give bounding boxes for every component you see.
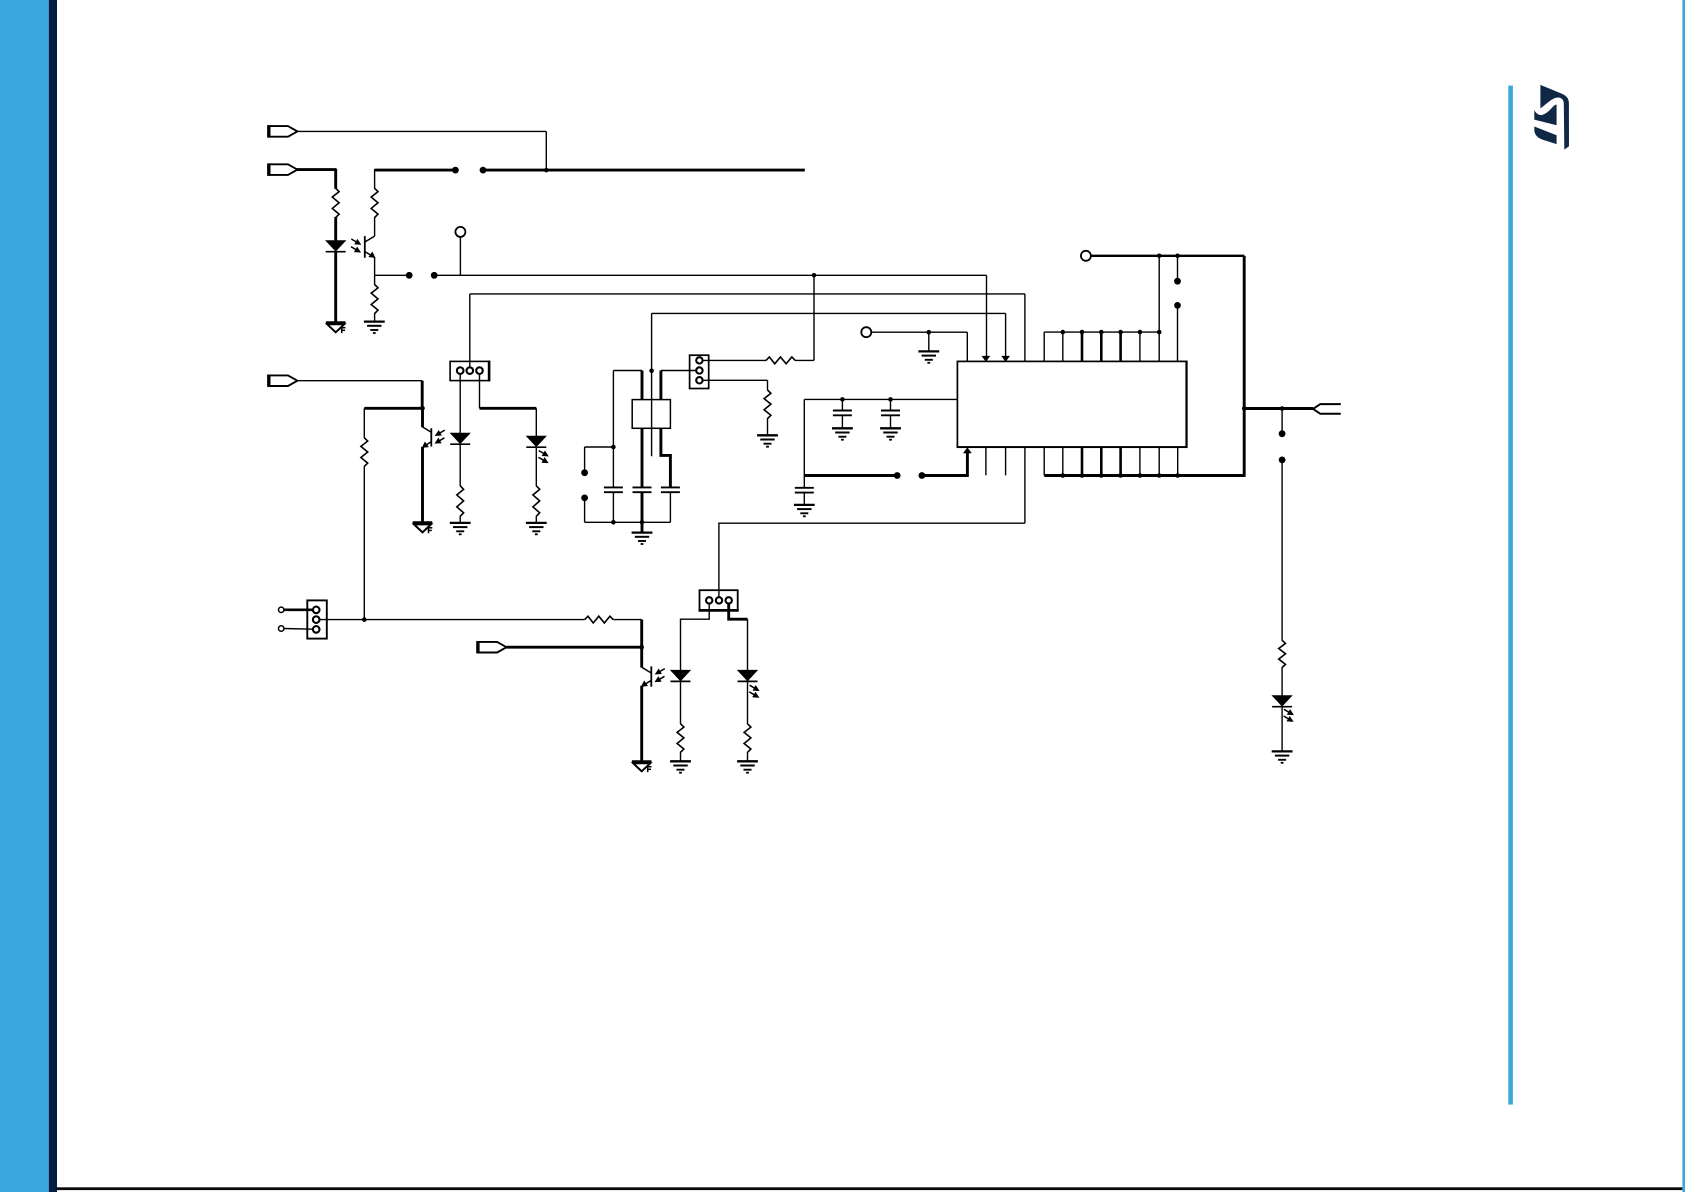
resistor R2 [371,188,378,217]
junction C2 tap [888,397,893,402]
wire crystal left lead [613,371,642,400]
capacitor C2 [881,411,900,416]
junction Q3 collector node [639,645,644,650]
solder-bridge J5 [1174,278,1181,309]
frame ground F3 [632,762,652,773]
wire LED branch to J6 [1281,409,1283,434]
resistor R8 [764,390,771,419]
capacitor C4 [604,487,623,492]
connector tag T1 [269,125,298,137]
wire CN1 pin3 to D3 [480,374,537,437]
junction VDD output node [1242,406,1247,411]
U1 top pin bus [1044,330,1161,362]
light emission arrows D5 [749,685,758,697]
thick bus VSS left [804,474,897,477]
wire left branch down [803,399,805,487]
capacitor C1 [833,411,852,416]
wire to tag T5 [1244,407,1313,410]
ground G6 [794,505,815,516]
junction bus C4 [611,520,616,525]
wire J3 to gnd bus [584,498,586,522]
U1 VSS pin to ground line [1024,447,1026,523]
vertical blue accent line [1508,86,1513,1105]
junction bus C5 [640,520,645,525]
wire C6 to bus [669,493,671,523]
junction T1/line2 [544,168,549,173]
capacitor C5 [633,487,652,492]
pin header CN4 [699,590,739,610]
ground G5 [880,428,901,439]
junction on crystal line [649,369,654,374]
ground G4 [832,428,853,439]
left light-blue sidebar [0,0,49,1192]
stub pin A [279,607,313,612]
stub pin B [279,626,313,631]
wire R4 down to CN3 [363,466,365,620]
ST logo [1534,85,1569,150]
junction R4 branch [362,617,367,622]
connector tag T2 [269,163,298,175]
junction C1 tap [840,397,845,402]
LED D2 (optocoupler diode) [450,433,470,444]
connector tag T4 [478,641,507,653]
phototransistor Q3 [642,647,652,687]
wire T1 to line2 [297,131,546,170]
junction VDD b [1175,254,1180,259]
light emission arrows D3 [539,451,548,463]
LED D1 (optocoupler diode) [326,241,346,252]
capacitor C3 [795,488,814,493]
wire VDD right drop [1243,256,1246,477]
wire R5 to ground [459,516,461,523]
U1 bottom pin bus [1044,447,1244,478]
wire net OPTO1 into U1 [986,275,988,357]
wire Q3 emitter to F3 [640,686,643,762]
wire U1 left pin net [804,398,957,400]
wire CN4 pin3 to D5 [729,604,748,671]
wire J6 to R12 [1281,460,1283,641]
wire C2 stem [890,399,892,410]
test point P3 [1081,251,1244,261]
wire C5 to bus [641,493,644,523]
wire node to R4 corner [364,407,423,410]
solder-bridge J6 [1279,430,1286,463]
ground G9 [526,523,547,534]
phototransistor Q2 [423,408,432,447]
frame ground F2 [413,523,433,534]
wire Q1 emitter down [374,257,376,285]
junction LED branch [1280,406,1285,411]
junction Q2 collector node [420,406,425,411]
resistor R5 [457,486,464,517]
ground G10 [670,761,691,772]
ground G3 [918,351,939,362]
ground G7 [632,522,653,544]
wire CN4 pin1 to D4 [681,604,710,671]
wire Y1 right jog to C6 [661,428,671,487]
wire VDD to J5 [1177,256,1179,281]
wire R1 to D1 [334,217,337,241]
test point P2 [861,327,967,337]
resistor R3 [371,285,378,314]
wire link to J3 [585,447,614,473]
wire T3 to Q2 collector [297,381,422,409]
wire crystal right lead [661,371,696,400]
wire VDD to top bus [1158,256,1160,332]
wire CN3 pin2 to R9 [320,619,585,621]
wire R12 to D6 [1281,667,1283,696]
resistor R12 [1279,640,1286,667]
bottom black rule [57,1187,1683,1190]
solder-bridge J1 [406,272,438,279]
light arrows D2 to Q2 [435,430,444,443]
LED D5 [738,670,758,681]
arrow into U1 bottom [964,448,971,453]
wire R6 to ground [535,516,537,523]
LED D4 (optocoupler diode) [671,670,691,681]
wire line2 long [483,169,805,172]
wire CN2 pin3 to R8 [703,380,768,390]
wire segment line2-left [375,169,456,189]
IC U1 [957,361,1186,447]
pin header CN2 [690,355,709,388]
wire C3 to ground [803,493,805,505]
resistor R1 [332,188,339,217]
resistor R11 [744,724,751,753]
wire R7 to net OPTO1 [795,275,814,360]
solder-bridge J2 [452,167,486,174]
wire to ground G3 [928,332,930,351]
test point P1 [455,227,465,275]
resistor R7 [766,357,795,364]
wire D6 to ground [1281,707,1283,751]
connector tag T3 [269,375,298,387]
wire C1 stem [841,399,843,410]
wire R3 to ground [374,313,376,322]
arrow into U1 pin3 [1002,356,1009,361]
ground G2 [757,435,778,446]
wire Y1 left to C5 [641,428,644,487]
wire T4 to Q3 node [507,646,642,649]
pin header CN3 [307,600,327,638]
wire D2 to R5 [459,445,461,486]
connector tag T5 [1313,404,1341,414]
wire ground link [719,523,1025,597]
resistor R6 [533,486,540,517]
ground G12 [1272,751,1293,762]
LED D3 [526,436,546,447]
ground G8 [450,523,471,534]
wire R2 to Q1 collector [374,217,376,236]
left navy sidebar stripe [49,0,57,1192]
wire P2 net into U1 top [966,332,968,361]
wire D1 to ground F1 [334,252,337,322]
junction crystal gnd link [611,445,616,450]
junction at x=814 [812,273,817,278]
wire line3 down to U1 [1024,294,1026,362]
junction VDD a [1157,254,1162,259]
solder-bridge J3 [581,469,588,501]
light emission arrows D6 [1284,709,1293,721]
ground G1 [364,322,385,333]
frame ground F1 [326,323,346,334]
LED D6 [1272,696,1292,707]
thick bus VSS right [922,451,968,477]
wire T2 to R1 [296,169,336,189]
wire OSC1 into U1 [1005,313,1007,357]
wire net OSC1 (line y=313) [652,313,1006,456]
junction P2 gnd [927,330,932,335]
crystal Y1 body [632,400,670,429]
wire D4 to R10 [680,682,682,724]
wire R9 to Q3 [613,620,642,648]
wire CN2 pin1 to R7 [703,359,767,361]
wire corner down to R4 [363,408,365,438]
wire net OPTO1 (line y=275) [375,274,410,276]
wire D5 to R11 [747,682,749,724]
wire C4 to bus [612,493,614,523]
wire CN1 pin2 up to line3 [470,294,1025,367]
wire net OPTO1 continues [434,274,986,276]
wire R11 to ground [747,752,749,761]
ground G11 [737,761,758,772]
wire C2 to ground [890,416,892,429]
right edge blue hairline [1682,0,1685,1192]
resistor R9 [585,616,614,623]
phototransistor Q1 [365,236,375,258]
capacitor C6 [661,487,680,492]
wire C1 to ground [841,416,843,429]
pin header CN1 [450,361,489,382]
wire cap branch x=613 [612,371,614,488]
arrow into U1 pin2 [983,356,990,361]
resistor R10 [677,724,684,753]
U1 bottom stub pins [986,447,1006,475]
wire D3 to R6 [535,448,537,486]
wire R8 to ground [767,418,769,435]
wire J5 into U1 top [1177,305,1179,361]
wire Q2 emitter to F2 [421,447,424,523]
wire R10 to ground [680,752,682,761]
resistor R4 [361,438,368,467]
wire CN1 pin1 to D2 [459,374,461,434]
light arrows D4 to Q3 [655,669,664,682]
ground bus of crystal [585,521,671,523]
light arrows D1 to Q1 [351,239,360,252]
solder-bridge J4 [894,472,926,479]
